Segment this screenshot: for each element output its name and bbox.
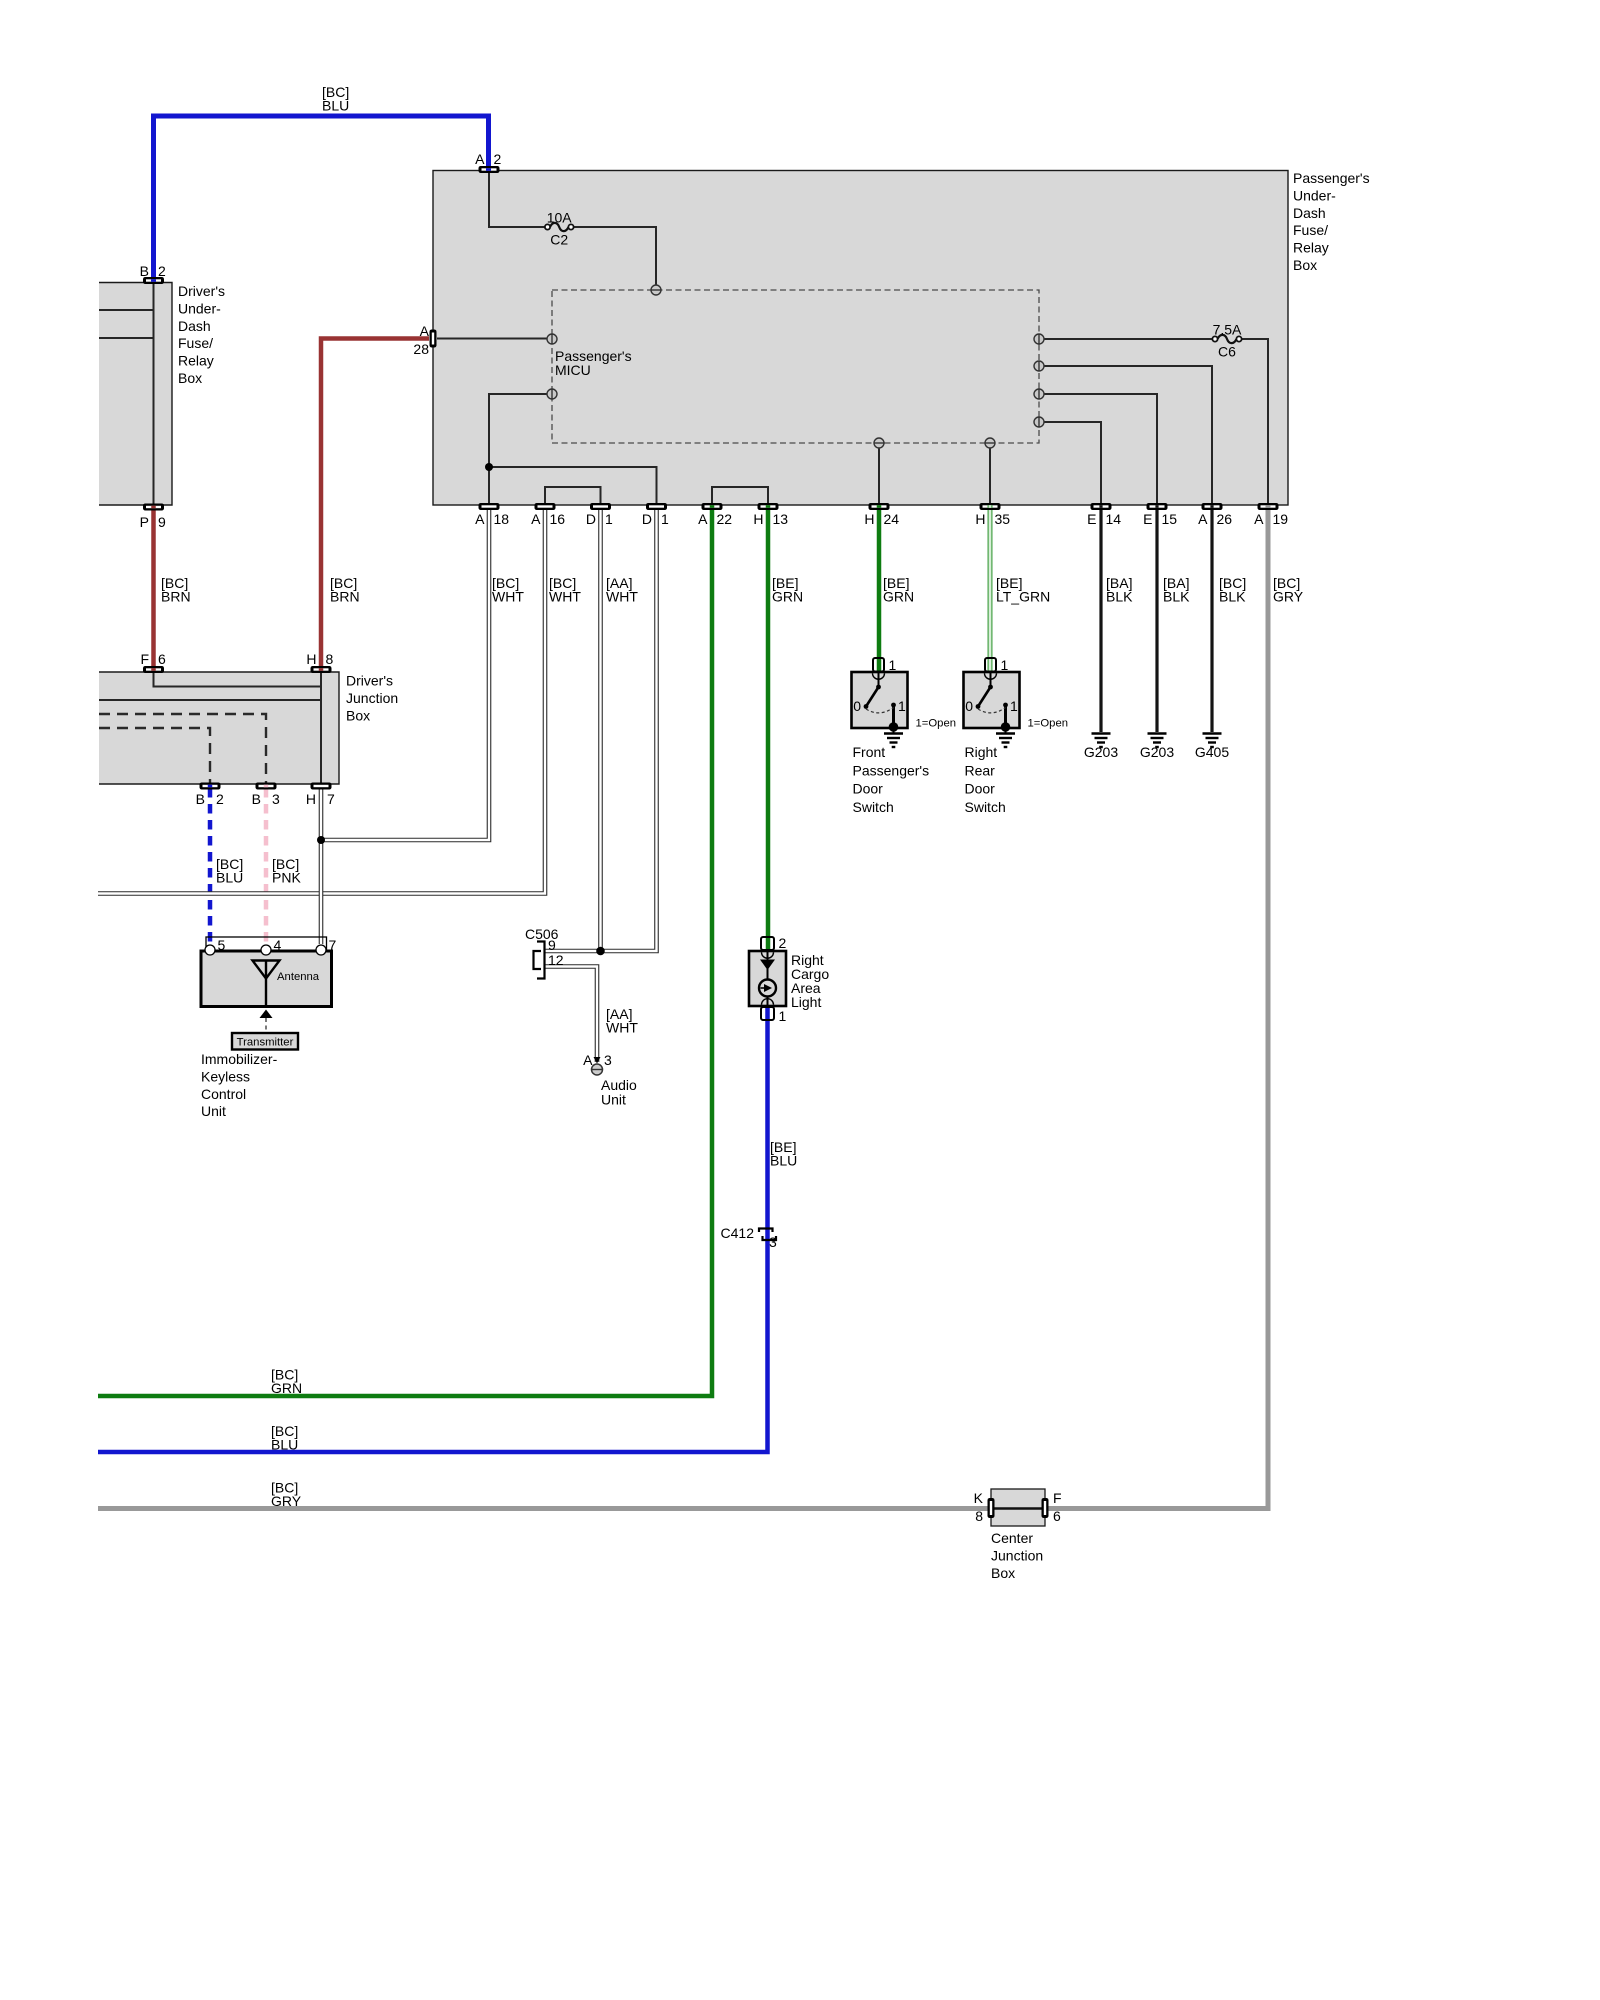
svg-text:A: A [420,323,430,339]
svg-text:Switch: Switch [853,799,894,815]
svg-text:Rear: Rear [965,762,996,778]
svg-text:Transmitter: Transmitter [237,1037,294,1049]
svg-text:0: 0 [853,698,861,714]
svg-text:16: 16 [550,511,566,527]
svg-text:Door: Door [965,781,996,797]
svg-text:WHT: WHT [549,589,581,605]
svg-text:Box: Box [346,707,370,723]
svg-text:Immobilizer-: Immobilizer- [201,1051,278,1067]
svg-text:8: 8 [326,651,334,667]
svg-text:15: 15 [1162,511,1178,527]
svg-text:6: 6 [158,651,166,667]
svg-text:MICU: MICU [555,362,591,378]
svg-text:10A: 10A [547,210,573,226]
svg-text:2: 2 [494,151,502,167]
svg-text:WHT: WHT [606,1020,638,1036]
svg-text:1=Open: 1=Open [916,718,957,730]
svg-text:7: 7 [329,937,337,953]
svg-text:Dash: Dash [1293,205,1326,221]
svg-text:Passenger's: Passenger's [853,762,930,778]
svg-text:A: A [475,151,485,167]
svg-text:7.5A: 7.5A [1213,322,1242,338]
svg-text:H: H [753,511,763,527]
svg-text:C412: C412 [721,1225,755,1241]
svg-text:13: 13 [773,511,789,527]
svg-text:9: 9 [158,514,166,530]
svg-text:PNK: PNK [272,870,301,886]
svg-text:3: 3 [604,1052,612,1068]
svg-text:A: A [475,511,485,527]
svg-text:BLK: BLK [1219,589,1246,605]
svg-text:Passenger's: Passenger's [1293,170,1370,186]
svg-text:1: 1 [661,511,669,527]
svg-text:A: A [698,511,708,527]
svg-text:F: F [140,651,149,667]
svg-text:1: 1 [605,511,613,527]
svg-text:Junction: Junction [346,690,398,706]
svg-text:Unit: Unit [601,1092,626,1108]
svg-text:K: K [974,1490,984,1506]
svg-text:A: A [1198,511,1208,527]
svg-text:GRN: GRN [883,589,914,605]
svg-text:1: 1 [779,1008,787,1024]
svg-text:Driver's: Driver's [346,673,393,689]
svg-text:H: H [864,511,874,527]
svg-text:BLU: BLU [271,1437,298,1453]
svg-text:Right: Right [965,744,998,760]
svg-text:GRN: GRN [772,589,803,605]
svg-text:9: 9 [548,937,556,953]
svg-text:BLK: BLK [1106,589,1133,605]
svg-text:Center: Center [991,1530,1033,1546]
svg-text:BRN: BRN [330,589,360,605]
svg-text:LT_GRN: LT_GRN [996,589,1050,605]
svg-text:BLU: BLU [216,870,243,886]
svg-text:GRY: GRY [271,1493,302,1509]
svg-text:Front: Front [853,744,886,760]
svg-text:1: 1 [889,657,897,673]
svg-text:BRN: BRN [161,589,191,605]
svg-text:WHT: WHT [606,589,638,605]
svg-text:GRY: GRY [1273,589,1304,605]
svg-text:B: B [140,263,149,279]
svg-text:H: H [975,511,985,527]
svg-text:0: 0 [965,698,973,714]
svg-text:5: 5 [218,937,226,953]
svg-text:B: B [252,791,261,807]
svg-text:2: 2 [216,791,224,807]
svg-text:WHT: WHT [492,589,524,605]
svg-text:Antenna: Antenna [277,971,320,983]
svg-text:D: D [586,511,596,527]
svg-text:GRN: GRN [271,1380,302,1396]
svg-text:H: H [306,791,316,807]
svg-text:19: 19 [1273,511,1289,527]
svg-text:Fuse/: Fuse/ [178,335,213,351]
svg-text:1=Open: 1=Open [1028,718,1069,730]
svg-text:A: A [531,511,541,527]
svg-text:3: 3 [272,791,280,807]
svg-text:24: 24 [884,511,900,527]
svg-text:35: 35 [995,511,1011,527]
svg-text:Control: Control [201,1086,246,1102]
svg-text:2: 2 [158,263,166,279]
svg-text:BLK: BLK [1163,589,1190,605]
svg-text:A: A [583,1052,593,1068]
svg-text:G203: G203 [1140,744,1174,760]
svg-text:2: 2 [779,935,787,951]
svg-text:Box: Box [1293,257,1317,273]
svg-text:G405: G405 [1195,744,1229,760]
svg-text:C2: C2 [550,232,568,248]
svg-text:4: 4 [274,937,282,953]
svg-text:Door: Door [853,781,884,797]
svg-text:B: B [196,791,205,807]
svg-text:8: 8 [975,1508,983,1524]
svg-text:BLU: BLU [770,1153,797,1169]
svg-text:Switch: Switch [965,799,1006,815]
svg-text:A: A [1254,511,1264,527]
svg-text:Under-: Under- [178,300,221,316]
svg-text:BLU: BLU [322,98,349,114]
svg-text:3: 3 [769,1234,777,1250]
svg-text:G203: G203 [1084,744,1118,760]
svg-text:28: 28 [413,341,429,357]
svg-text:E: E [1087,511,1096,527]
svg-text:1: 1 [1010,698,1018,714]
svg-text:F: F [1053,1490,1062,1506]
svg-text:C6: C6 [1218,344,1236,360]
svg-text:18: 18 [494,511,510,527]
svg-text:P: P [140,514,149,530]
svg-text:22: 22 [717,511,733,527]
svg-text:Light: Light [791,994,821,1010]
svg-text:E: E [1143,511,1152,527]
svg-text:Relay: Relay [178,353,214,369]
svg-text:Relay: Relay [1293,240,1329,256]
svg-text:H: H [306,651,316,667]
svg-text:14: 14 [1106,511,1122,527]
svg-text:7: 7 [327,791,335,807]
svg-text:26: 26 [1217,511,1233,527]
svg-text:Box: Box [991,1565,1015,1581]
svg-text:Dash: Dash [178,318,211,334]
svg-text:1: 1 [1001,657,1009,673]
svg-text:Under-: Under- [1293,187,1336,203]
svg-text:Driver's: Driver's [178,283,225,299]
svg-text:6: 6 [1053,1508,1061,1524]
svg-text:12: 12 [548,952,564,968]
svg-text:Keyless: Keyless [201,1068,250,1084]
svg-text:Unit: Unit [201,1103,226,1119]
svg-text:1: 1 [898,698,906,714]
svg-text:Box: Box [178,370,202,386]
svg-text:Fuse/: Fuse/ [1293,222,1328,238]
svg-text:D: D [642,511,652,527]
svg-text:Junction: Junction [991,1547,1043,1563]
